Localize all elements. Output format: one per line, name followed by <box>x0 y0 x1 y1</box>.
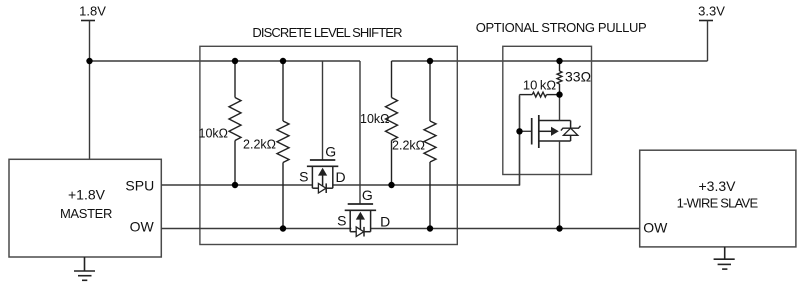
ground (slave) <box>714 247 735 269</box>
svg-text:G: G <box>362 187 373 203</box>
wire pullup gate (R6 to Q3 gate / SPU) <box>519 95 521 185</box>
box 3.3V 1-wire slave <box>640 150 796 247</box>
node 3.3V supply terminal <box>698 4 725 21</box>
svg-text:2.2kΩ: 2.2kΩ <box>392 138 425 152</box>
box optional strong pullup <box>503 46 592 174</box>
svg-text:10 kΩ: 10 kΩ <box>523 77 557 92</box>
transistor Q1 (N-channel MOSFET, SPU path) <box>307 160 338 193</box>
resistor R1 10kOhm (left pullup to 1.8V) <box>229 61 241 185</box>
box discrete level shifter <box>200 46 457 244</box>
junction R5 / R6 / Q3 drain <box>556 91 562 97</box>
wire OW (Q2 drain to slave) <box>371 228 640 230</box>
wire Q3 gate stub <box>520 130 532 132</box>
resistor R5 33Ohm (strong pullup series) <box>557 61 562 95</box>
wire Q2 gate feed from 1.8V rail <box>359 61 361 204</box>
box 1.8V master <box>9 159 161 257</box>
junction Q3 gate / gate wire <box>516 128 522 134</box>
junction R2 top / 1.8V rail <box>280 58 286 64</box>
transistor Q2 (N-channel MOSFET, OW path) <box>345 204 376 237</box>
svg-text:D: D <box>380 213 390 229</box>
wire 1.8V rail <box>89 60 360 62</box>
resistor R3 10kOhm (right stage to 3.3V) <box>386 61 398 185</box>
svg-text:2.2kΩ: 2.2kΩ <box>243 138 276 152</box>
wire 1.8V supply to master VDD <box>89 21 91 160</box>
junction R4 top / 3.3V rail <box>427 58 433 64</box>
ground (master) <box>74 257 95 280</box>
svg-text:33Ω: 33Ω <box>565 69 591 85</box>
resistor R6 10kOhm (pullup gate bleed) <box>519 92 559 97</box>
wire Q3 drain from R5/R6 node <box>559 95 561 121</box>
svg-text:OW: OW <box>643 220 668 236</box>
label +1.8V MASTER <box>60 187 112 222</box>
svg-text:OPTIONAL STRONG PULLUP: OPTIONAL STRONG PULLUP <box>476 20 647 35</box>
svg-text:10kΩ: 10kΩ <box>360 112 390 126</box>
transistor Q3 (P-channel MOSFET, strong pullup) <box>532 115 581 148</box>
junction R4 bottom / OW <box>427 225 433 231</box>
svg-text:3.3V: 3.3V <box>698 4 725 19</box>
svg-text:SPU: SPU <box>125 177 154 193</box>
node 1.8V supply terminal <box>79 4 106 21</box>
svg-text:+1.8V: +1.8V <box>68 187 106 203</box>
svg-text:S: S <box>299 168 308 184</box>
resistor R4 2.2kOhm (right pulldown leg to OW) <box>424 61 436 229</box>
wire SPU (Q1 drain to strong pullup gate) <box>333 96 520 185</box>
junction 1.8V rail / supply <box>86 58 92 64</box>
label +3.3V 1-WIRE SLAVE <box>677 178 759 211</box>
svg-text:G: G <box>325 144 336 160</box>
junction R3 bottom / SPU <box>388 182 394 188</box>
wire Q1 gate feed from 1.8V rail <box>322 61 324 160</box>
svg-text:+3.3V: +3.3V <box>699 178 737 194</box>
resistor R2 2.2kOhm (left pulldown leg to OW) <box>277 61 289 229</box>
wire OW (master to Q2 source) <box>161 228 351 230</box>
svg-text:D: D <box>335 169 345 185</box>
junction R1 top / 1.8V rail <box>232 58 238 64</box>
svg-text:1.8V: 1.8V <box>79 4 106 19</box>
svg-text:S: S <box>337 212 346 228</box>
junction R5 top / 3.3V rail <box>556 58 562 64</box>
svg-text:10kΩ: 10kΩ <box>199 126 229 140</box>
svg-text:OW: OW <box>130 219 155 235</box>
wire Q3 source to OW <box>559 141 561 229</box>
wire 3.3V rail <box>392 60 708 62</box>
junction R1 bottom / SPU <box>232 182 238 188</box>
wire 3.3V supply drop <box>707 21 709 62</box>
junction Q3 source / OW <box>556 225 562 231</box>
svg-text:1-WIRE SLAVE: 1-WIRE SLAVE <box>677 196 759 211</box>
svg-text:DISCRETE LEVEL SHIFTER: DISCRETE LEVEL SHIFTER <box>252 25 402 40</box>
wire SPU (master to Q1 source) <box>161 184 312 186</box>
svg-text:MASTER: MASTER <box>60 206 112 221</box>
junction R2 bottom / OW <box>280 225 286 231</box>
